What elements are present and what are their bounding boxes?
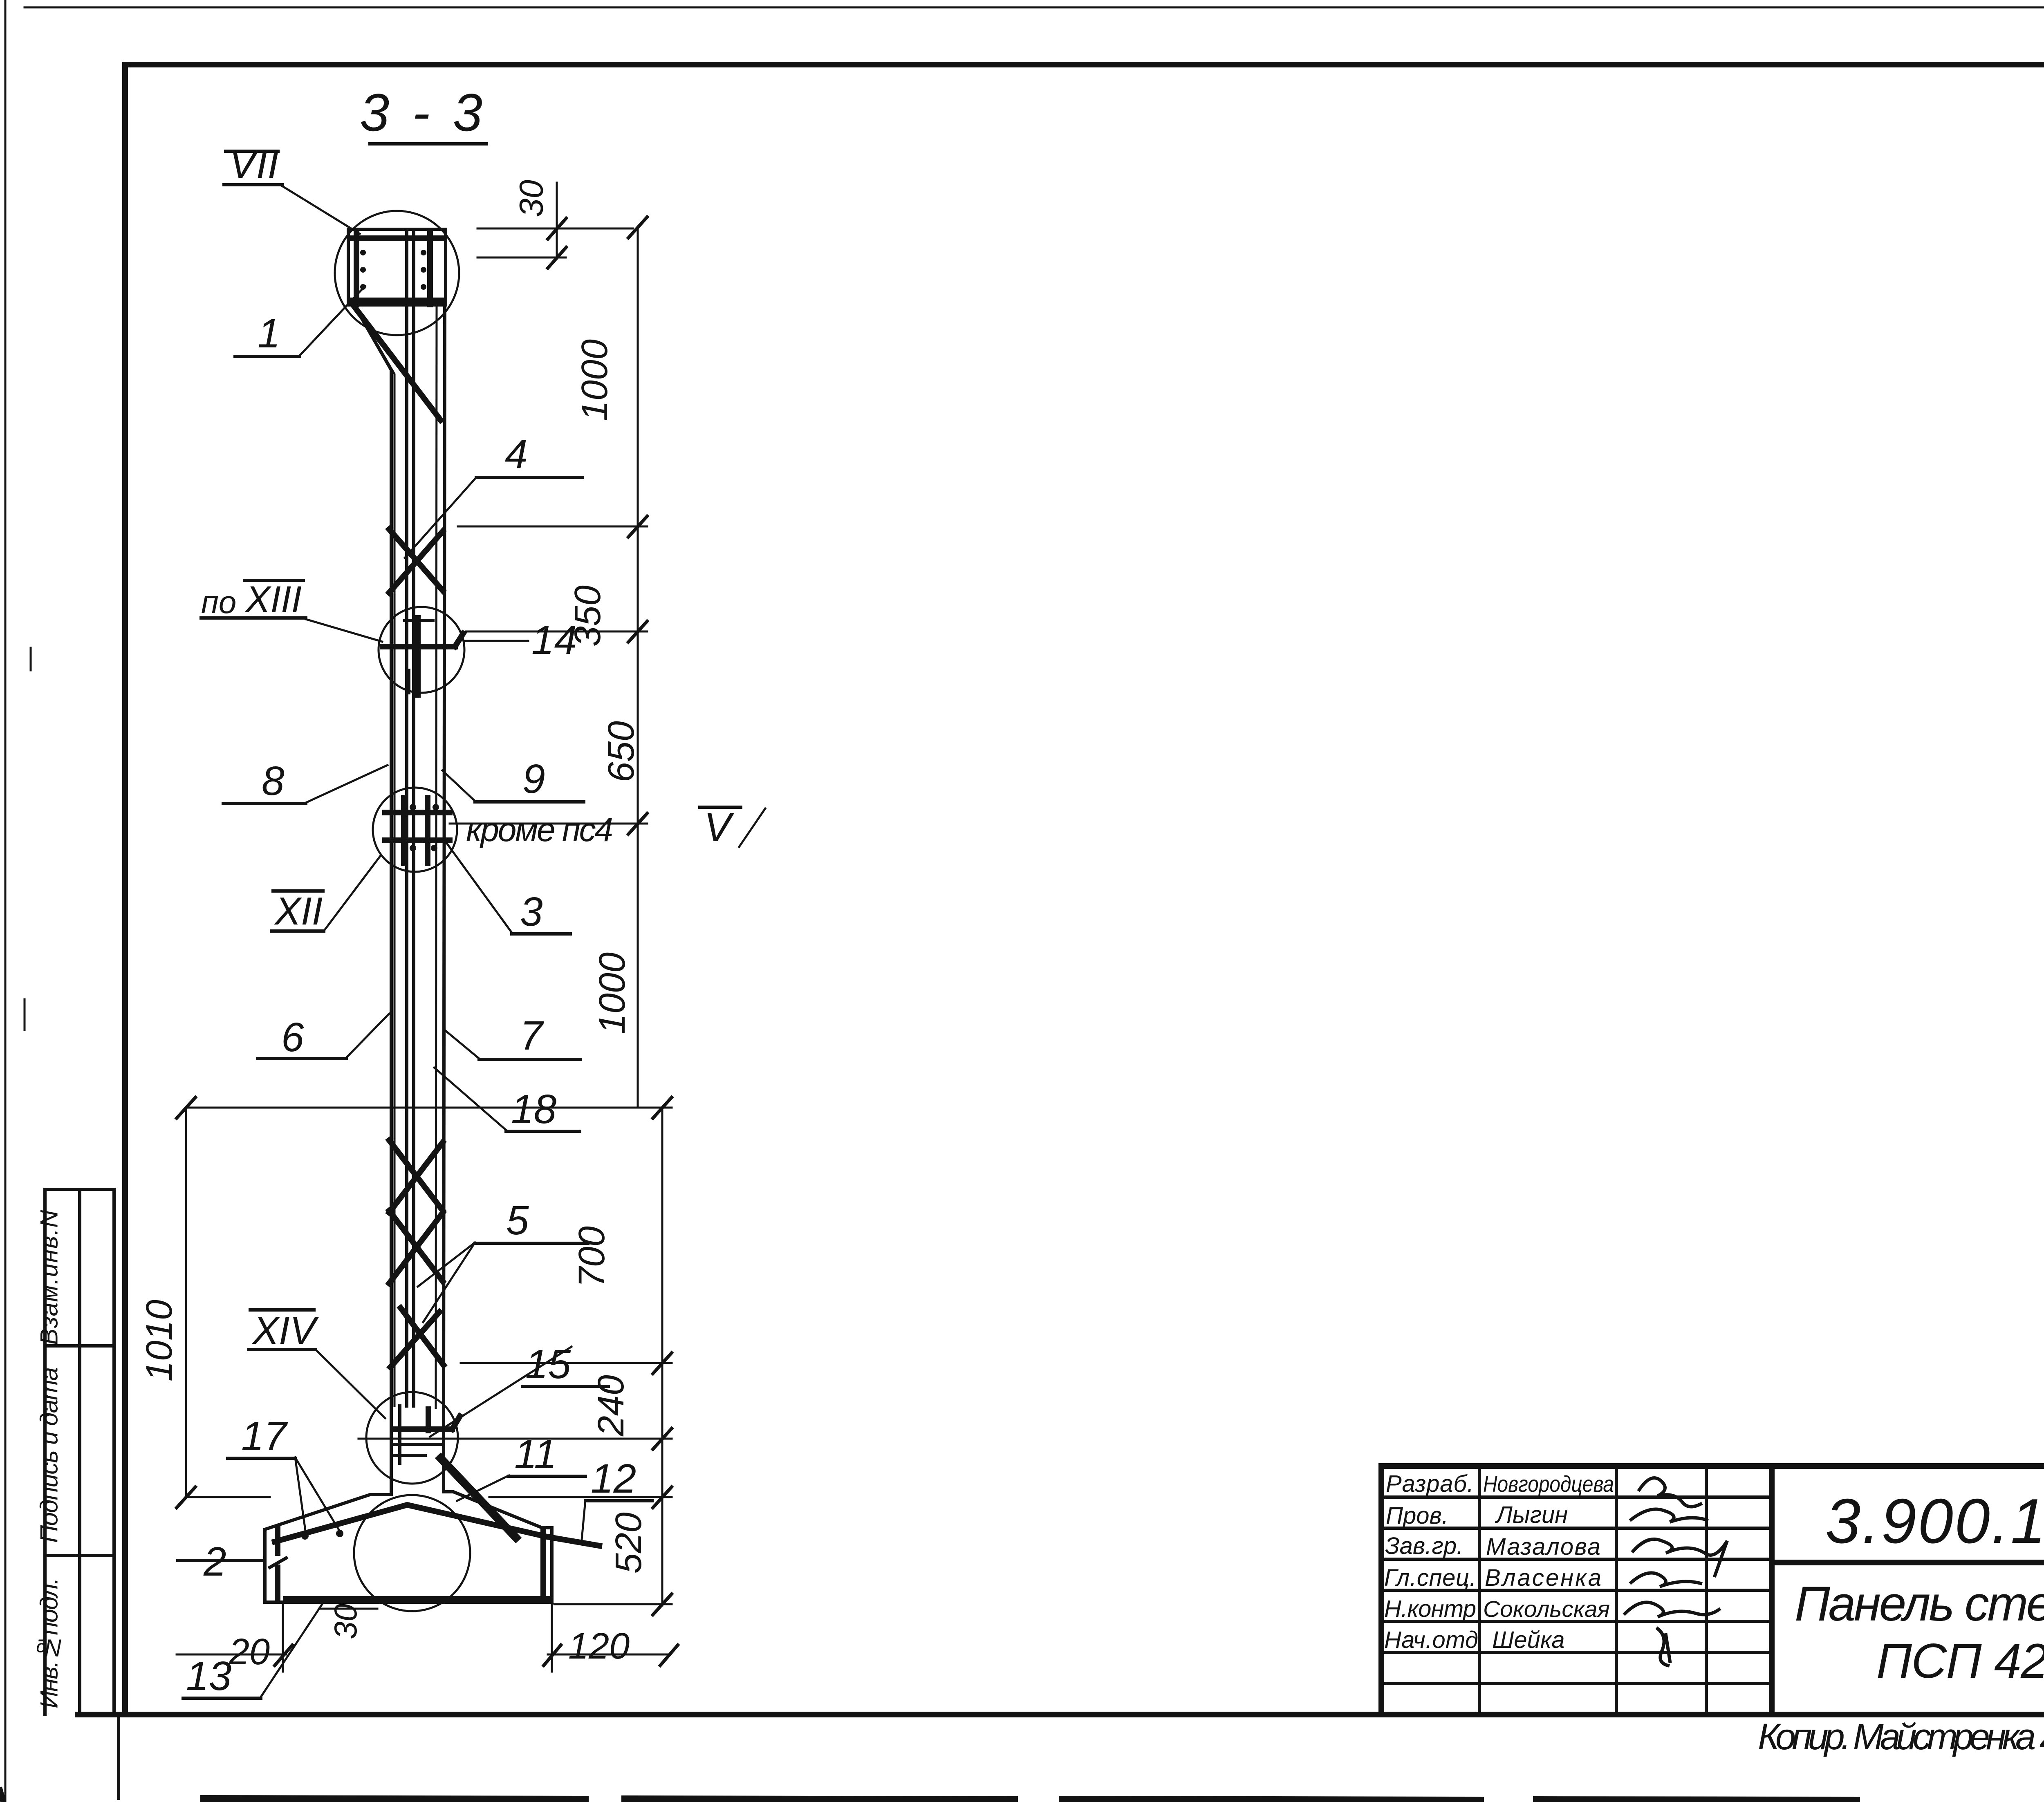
leader 14: [465, 640, 528, 642]
outer left edge line: [4, 0, 7, 1802]
footing left tick: [270, 1558, 286, 1567]
ext lines right: [458, 526, 647, 528]
X brace 3: [389, 1211, 443, 1281]
leader 11: [457, 1475, 509, 1501]
rebar dots left: [360, 250, 366, 255]
svg-text:Сокольская: Сокольская: [1483, 1596, 1610, 1622]
stirrup right bar: [427, 234, 433, 304]
svg-text:12: 12: [591, 1456, 636, 1502]
embed symbol XIII: [383, 644, 455, 649]
svg-text:18: 18: [511, 1086, 557, 1132]
column left inner line: [358, 311, 394, 1406]
leader VII: [282, 186, 360, 234]
strip horizontals: [45, 1188, 114, 1191]
X brace 4 partial: [401, 1308, 444, 1365]
svg-text:17: 17: [241, 1413, 288, 1459]
cage vertical lines through head: [405, 232, 408, 1406]
svg-text:5: 5: [506, 1198, 529, 1243]
right dim line: [637, 227, 639, 1108]
svg-text:4: 4: [505, 431, 528, 477]
signature scribble 3: [1633, 1539, 1727, 1576]
leader XIII: [306, 619, 382, 642]
name box: [1772, 1562, 2044, 1715]
svg-text:Зав.гр.: Зав.гр.: [1385, 1533, 1463, 1559]
svg-text:20: 20: [229, 1632, 270, 1672]
leaders 17: [295, 1457, 306, 1533]
svg-text:30: 30: [513, 180, 550, 217]
stirrup bottom: [352, 298, 444, 303]
svg-text:Панель стеновая: Панель стеновая: [1795, 1576, 2044, 1631]
footing outline: [265, 1408, 552, 1602]
hash symbol XII: [401, 798, 407, 863]
outer top edge line: [25, 7, 2044, 9]
svg-text:7: 7: [520, 1013, 544, 1059]
row lines: [1381, 1495, 1772, 1499]
frame top: [125, 62, 2044, 67]
svg-text:Гл.спец.: Гл.спец.: [1384, 1565, 1476, 1591]
svg-text:8: 8: [262, 758, 285, 804]
leader XIV: [316, 1350, 385, 1418]
dim ticks right: [628, 217, 647, 238]
detail circle XII: [373, 788, 457, 872]
stirrup top: [352, 235, 444, 241]
X brace 2: [389, 1140, 443, 1211]
dim 30 cover: [319, 1608, 377, 1610]
strip verticals: [43, 1189, 47, 1715]
svg-text:по: по: [201, 584, 236, 620]
svg-text:Власенка: Власенка: [1485, 1565, 1601, 1591]
svg-text:30: 30: [327, 1604, 363, 1639]
leader 15: [430, 1347, 572, 1437]
svg-text:3 - 3: 3 - 3: [360, 83, 482, 142]
footing left stirrup: [275, 1528, 280, 1553]
detail circle XV: [354, 1495, 470, 1611]
svg-text:9: 9: [522, 756, 545, 802]
svg-text:Подпись и дата: Подпись и дата: [36, 1367, 63, 1543]
title 3-3 underline: [370, 142, 486, 146]
column head box: [348, 229, 446, 305]
left frame stub below: [117, 1715, 120, 1798]
svg-text:13: 13: [186, 1653, 231, 1699]
svg-text:1000: 1000: [574, 339, 615, 421]
X brace 1: [389, 529, 443, 591]
svg-text:VII: VII: [229, 141, 279, 187]
svg-text:Нач.отд: Нач.отд: [1384, 1627, 1478, 1653]
svg-text:XIV: XIV: [252, 1309, 319, 1352]
leader 18: [434, 1068, 506, 1130]
svg-text:Пров.: Пров.: [1386, 1502, 1448, 1529]
frame left: [122, 65, 128, 1715]
leader XII: [324, 855, 381, 931]
column right inner line: [436, 305, 437, 1408]
svg-text:Мазалова: Мазалова: [1486, 1533, 1600, 1560]
footing rebar hat: [275, 1505, 599, 1546]
footing right stirrup: [540, 1529, 546, 1597]
leader 9: [442, 770, 475, 801]
svg-text:1: 1: [258, 311, 280, 356]
signature scribble 6: [1658, 1629, 1670, 1665]
svg-text:кроме пс4: кроме пс4: [466, 811, 613, 848]
leader 4: [405, 477, 476, 558]
diag bar 11: [441, 1458, 516, 1538]
svg-text:1010: 1010: [139, 1300, 180, 1381]
doc number box: [1772, 1466, 2044, 1562]
signature scribble 2: [1631, 1509, 1707, 1522]
leader 6: [346, 1014, 389, 1058]
signature scribble 1: [1639, 1478, 1701, 1507]
embed symbol XIV: [392, 1426, 452, 1432]
svg-text:Н.контр: Н.контр: [1384, 1596, 1476, 1622]
stirrup left bar: [354, 234, 359, 304]
svg-text:ПСП 42: ПСП 42: [1876, 1634, 2044, 1688]
svg-text:XIII: XIII: [244, 579, 302, 620]
svg-text:Взам.инв.N: Взам.инв.N: [36, 1210, 63, 1345]
leader 8: [306, 765, 388, 803]
column right edge: [444, 305, 445, 1408]
column lines: [1478, 1466, 1481, 1715]
leader 13: [261, 1603, 323, 1697]
column left edge slant: [348, 305, 391, 1408]
svg-text:Копир. Майстренка: Копир. Майстренка: [1758, 1717, 2036, 1757]
svg-text:Разраб.: Разраб.: [1386, 1471, 1474, 1497]
svg-text:6: 6: [281, 1014, 304, 1060]
footing bottom rebar: [286, 1596, 550, 1602]
left dim 1010: [185, 1108, 187, 1497]
leader 1: [300, 286, 365, 356]
left table outline: [1381, 1466, 1772, 1715]
svg-text:Шейка: Шейка: [1492, 1627, 1565, 1653]
svg-text:240: 240: [591, 1375, 632, 1437]
svg-text:120: 120: [568, 1626, 630, 1667]
detail circle VII: [335, 211, 459, 335]
svg-text:3.900.1-10.2-7 -04.00: 3.900.1-10.2-7 -04.00: [1825, 1486, 2044, 1556]
detail circle XIV: [366, 1392, 458, 1484]
leaders 5: [418, 1242, 475, 1287]
svg-text:24399-01: 24399-01: [2040, 1710, 2044, 1756]
svg-text:650: 650: [601, 721, 642, 782]
leader 7: [446, 1031, 479, 1059]
svg-text:XII: XII: [274, 889, 323, 933]
footing rebar dots: [301, 1532, 309, 1540]
rebar dots right: [421, 250, 426, 255]
bottom scan artifact dashes: [204, 1799, 585, 1800]
svg-text:15: 15: [525, 1341, 571, 1387]
leader 3: [446, 843, 512, 933]
svg-text:1000: 1000: [592, 952, 633, 1034]
margin dash: [24, 999, 26, 1030]
diag brace top: [355, 307, 441, 420]
svg-text:Новгородцева: Новгородцева: [1483, 1471, 1614, 1497]
svg-text:V: V: [704, 804, 735, 850]
XV text: [0, 0, 0, 0]
detail circle XIII: [379, 607, 464, 693]
signature scribble 4: [1631, 1573, 1701, 1587]
svg-text:520: 520: [608, 1512, 649, 1574]
svg-text:3: 3: [520, 889, 543, 935]
svg-text:350: 350: [567, 585, 608, 647]
svg-text:Лыгин: Лыгин: [1495, 1502, 1568, 1528]
leader 12: [581, 1500, 585, 1544]
signature scribble 5: [1625, 1602, 1719, 1617]
svg-text:700: 700: [572, 1226, 612, 1287]
frame bottom: [78, 1712, 2044, 1717]
svg-text:Инв.№подл.: Инв.№подл.: [36, 1578, 63, 1708]
